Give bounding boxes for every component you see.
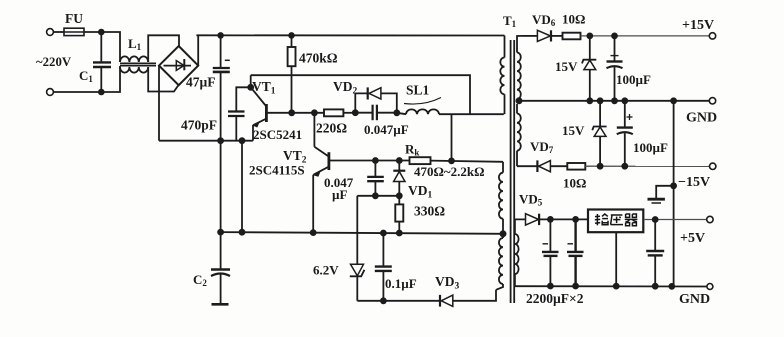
node junction feedback tap [500, 231, 505, 236]
svg-text:GND: GND [679, 292, 710, 307]
wire bridge + to main rail [197, 35, 199, 65]
secondary 15V top [517, 36, 523, 53]
capacitor 0.1uF [375, 233, 417, 301]
node junction C1 top [99, 30, 104, 35]
resistor 330 ohm [395, 196, 445, 233]
wire main top rail [196, 34, 504, 36]
svg-text:100µF: 100µF [633, 140, 668, 155]
svg-text:+15V: +15V [682, 18, 714, 33]
capacitor 2200uF A [542, 219, 559, 286]
svg-text:L1: L1 [128, 36, 142, 52]
svg-text:220Ω: 220Ω [316, 121, 347, 136]
wire choke bottom to bridge [148, 67, 178, 92]
wire cap2 bottom row [357, 195, 399, 197]
node junction -15 c [622, 164, 627, 169]
node terminal +5V [707, 216, 713, 222]
secondary 5V [515, 219, 526, 234]
svg-text:2SC4115S: 2SC4115S [249, 163, 305, 178]
node junction VT2 collector [312, 110, 317, 115]
wire base row [292, 112, 324, 114]
svg-text:VD1: VD1 [408, 183, 433, 201]
svg-text:C2: C2 [193, 272, 207, 288]
transistor VT2 [249, 113, 375, 233]
capacitor 2200uF B [526, 219, 584, 306]
wire bottom rail [221, 232, 503, 234]
svg-text:330Ω: 330Ω [414, 204, 445, 219]
node junction b2 [573, 284, 578, 289]
bridge rectifier [159, 46, 198, 85]
diode VD1 [393, 161, 432, 201]
capacitor 0.047uF snubber [355, 105, 408, 137]
svg-text:+5V: +5V [680, 231, 705, 246]
svg-text:0.047µF: 0.047µF [364, 122, 409, 137]
resistor 10 ohm top [562, 12, 585, 40]
diode VD6 [523, 12, 563, 42]
node terminal GND upper [709, 98, 715, 104]
feedback winding [502, 162, 504, 173]
node junction gnd drop [671, 98, 676, 103]
svg-text:15V: 15V [555, 59, 578, 74]
node junction outcap top [653, 217, 658, 222]
node AC input terminal L [47, 29, 54, 36]
svg-text:100µF: 100µF [616, 72, 651, 87]
node junction collector [248, 85, 253, 90]
node junction gnd z2 [598, 98, 603, 103]
node junction C1 bottom [99, 90, 104, 95]
diode VD7 [517, 139, 567, 172]
node junction 47uF [218, 33, 223, 38]
node junction Rk right [449, 158, 454, 163]
char ya [611, 215, 623, 225]
svg-text:T1: T1 [503, 13, 517, 29]
wire down to bottom rail 2 [241, 141, 243, 233]
wire bridge - down [158, 66, 160, 141]
svg-text:C1: C1 [79, 68, 93, 84]
resistor 470k [288, 35, 338, 112]
node junction b3 [614, 284, 619, 289]
node junction rail 2 [240, 230, 245, 235]
node junction rail VT2e [311, 230, 316, 235]
node junction VD2 right [394, 110, 399, 115]
node junction -15 z [598, 164, 603, 169]
node junction b4 [653, 284, 658, 289]
svg-text:15V: 15V [562, 123, 585, 138]
wire bottom GND rail [515, 285, 707, 287]
svg-text:VD5: VD5 [519, 192, 543, 208]
wire -15V rail [585, 165, 709, 167]
fuse FU [64, 11, 84, 36]
regulator box [588, 210, 643, 233]
node junction neg row right [240, 138, 245, 143]
svg-text:VT1: VT1 [252, 79, 276, 97]
wire GND rail [517, 100, 709, 102]
svg-text:10Ω: 10Ω [563, 176, 586, 191]
wire Rk row [375, 160, 409, 162]
node junction cap2 top [373, 158, 378, 163]
svg-text:10Ω: 10Ω [562, 12, 585, 27]
wire zener drop [356, 196, 358, 264]
svg-text:470pF: 470pF [181, 118, 217, 133]
zener diode 15V lower [562, 101, 607, 166]
wire fuse to choke [84, 32, 120, 62]
svg-text:2SC5241: 2SC5241 [253, 127, 302, 142]
resistor Rk [405, 142, 503, 180]
capacitor 100uF lower [617, 101, 668, 166]
wire top input [53, 31, 64, 33]
char wen [595, 214, 608, 225]
wire bottom input [53, 66, 120, 92]
capacitor C2 [193, 232, 230, 304]
svg-text:2200µF×2: 2200µF×2 [526, 291, 584, 306]
capacitor C1 [79, 32, 111, 92]
capacitor 100uF upper [607, 36, 651, 101]
node junction rail 0.1uF [381, 231, 386, 236]
transistor VT1 [251, 79, 302, 142]
wire negative row [159, 140, 253, 142]
wire VT1 collector rail [251, 75, 470, 114]
inductor SL1 [397, 83, 441, 115]
wire down to bottom rail left [220, 141, 222, 232]
capacitor 470pF [181, 87, 251, 140]
wire GND vertical drop [673, 101, 675, 287]
svg-text:µF: µF [332, 187, 347, 202]
svg-text:470Ω~2.2kΩ: 470Ω~2.2kΩ [414, 164, 485, 179]
node junction VT1 base [289, 110, 294, 115]
regulator text wenyaqi strokes [595, 214, 638, 226]
node junction zener1 [587, 33, 592, 38]
node junction VD1 top [397, 158, 402, 163]
transformer T1 [496, 13, 526, 303]
wire feedback tap vertical [451, 114, 453, 160]
svg-text:SL1: SL1 [406, 83, 430, 98]
svg-text:~220V: ~220V [36, 55, 72, 69]
diode VD2 [333, 79, 397, 113]
svg-text:−15V: −15V [678, 175, 710, 190]
node AC input terminal N [47, 89, 54, 96]
diode VD5 [519, 192, 588, 226]
node junction VD1 bottom [397, 193, 402, 198]
svg-text:0.1µF: 0.1µF [385, 276, 417, 291]
zener diode 15V upper [555, 36, 596, 101]
node junction secondary tap [516, 98, 521, 103]
zener diode 6.2V [313, 263, 364, 301]
svg-text:FU: FU [65, 11, 83, 26]
ground chassis symbol [648, 186, 674, 203]
svg-text:6.2V: 6.2V [313, 263, 339, 278]
node junction b1 [548, 284, 553, 289]
wire SL1 to primary [439, 113, 504, 115]
wire choke top to bridge [148, 35, 179, 62]
node junction gnd z1 [587, 98, 592, 103]
svg-text:Rk: Rk [405, 142, 419, 158]
node terminal GND lower [707, 284, 713, 290]
node junction rail 330 [397, 231, 402, 236]
diode VD3 [435, 274, 496, 307]
node junction rail C2 [218, 230, 223, 235]
capacitor output 5V [646, 220, 664, 287]
node junction b5 [669, 284, 674, 289]
node terminal -15V [710, 163, 716, 169]
node junction cap2 bottom [373, 193, 378, 198]
node junction 2200-1 top [548, 217, 553, 222]
primary winding [504, 36, 506, 58]
svg-text:VD7: VD7 [530, 139, 554, 155]
wire bottom row to VD3 [357, 300, 439, 302]
node junction VD2 left [353, 110, 358, 115]
node junction gnd c1 [612, 98, 617, 103]
node terminal +15V [709, 33, 715, 39]
node junction 470k [289, 33, 294, 38]
node junction neg row left [218, 138, 223, 143]
wire regulator bottom [615, 233, 617, 286]
node junction gnd c2 [622, 98, 627, 103]
svg-text:VD2: VD2 [333, 79, 358, 97]
resistor 10 ohm lower [563, 163, 586, 191]
wire +15V rail [581, 35, 710, 37]
capacitor 0.047uF base [324, 161, 384, 203]
core [510, 40, 512, 303]
node junction cap100-1 [612, 33, 617, 38]
node junction 2200-2 top [573, 217, 578, 222]
capacitor 47uF [186, 35, 230, 140]
char qi [625, 214, 638, 226]
svg-text:VD6: VD6 [532, 12, 556, 28]
svg-text:VD3: VD3 [435, 274, 460, 292]
svg-text:47µF: 47µF [186, 75, 216, 90]
node junction 0.1uF bottom [381, 298, 386, 303]
svg-text:470kΩ: 470kΩ [299, 51, 338, 66]
wire +5V rail [644, 219, 707, 221]
node junction gnd jog [671, 183, 676, 188]
resistor 220 ohm [316, 109, 355, 135]
inductor L1 common-mode choke [120, 36, 156, 73]
svg-text:GND: GND [686, 111, 717, 126]
